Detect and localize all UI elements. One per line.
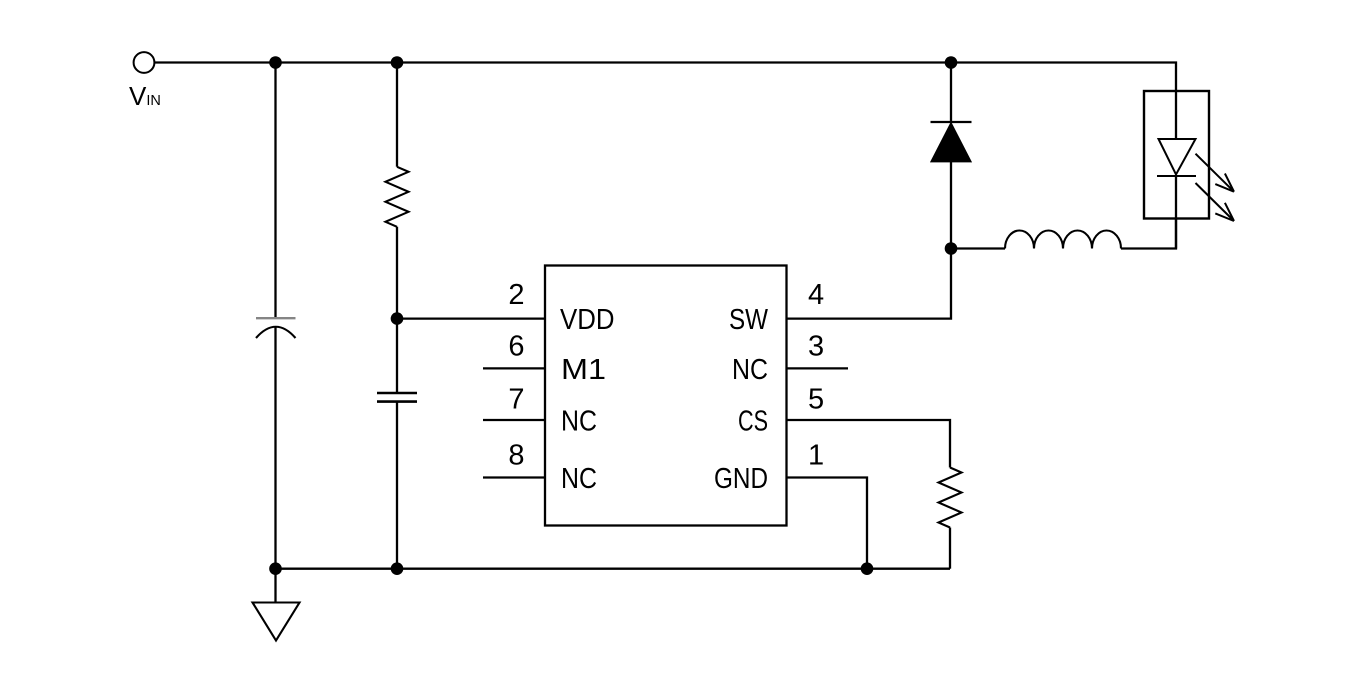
svg-text:NC: NC	[561, 463, 597, 495]
svg-text:8: 8	[508, 440, 524, 472]
svg-text:1: 1	[808, 440, 824, 472]
svg-text:5: 5	[808, 384, 824, 416]
svg-text:CS: CS	[738, 406, 768, 438]
svg-text:VDD: VDD	[560, 304, 615, 336]
svg-text:6: 6	[508, 330, 524, 362]
svg-text:2: 2	[508, 279, 524, 311]
svg-text:NC: NC	[732, 354, 768, 386]
svg-text:4: 4	[808, 279, 824, 311]
svg-text:M1: M1	[561, 354, 606, 386]
svg-text:SW: SW	[729, 304, 769, 336]
svg-text:NC: NC	[561, 406, 597, 438]
svg-text:7: 7	[508, 384, 524, 416]
svg-text:GND: GND	[714, 463, 768, 495]
svg-text:3: 3	[808, 330, 824, 362]
